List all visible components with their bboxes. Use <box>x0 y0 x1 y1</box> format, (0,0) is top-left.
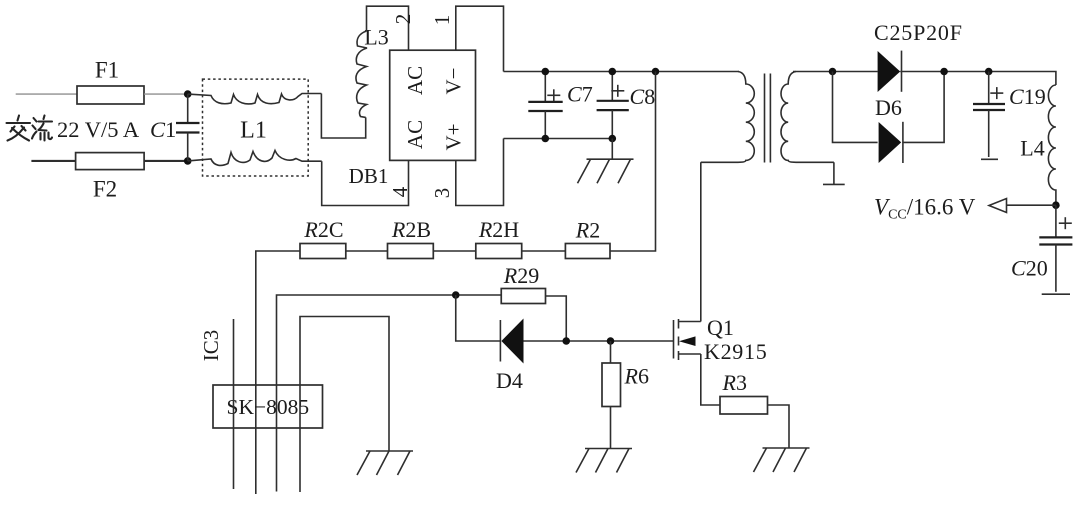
wire R29 row <box>277 295 502 492</box>
label C25P20F <box>874 20 963 45</box>
transistor Q1 <box>674 319 701 360</box>
wire IC3 pin 1 <box>233 319 235 489</box>
node gate row R29 <box>562 337 570 345</box>
inductor L3 <box>356 25 389 118</box>
svg-text:IC3: IC3 <box>199 330 223 362</box>
wire secondary top <box>793 71 878 73</box>
wire R3 to ground <box>768 405 790 448</box>
node top bus C7 <box>542 68 550 76</box>
wire AC top lead <box>16 93 77 95</box>
wire AC bottom lead <box>31 160 75 162</box>
resistor R2 <box>565 218 610 259</box>
node bottom AC <box>184 157 192 165</box>
label pin 3 <box>430 188 454 199</box>
svg-text:L1: L1 <box>240 118 267 144</box>
svg-text:C20: C20 <box>1011 256 1048 281</box>
inductor L1 common-mode choke <box>188 79 322 176</box>
svg-text:R6: R6 <box>624 364 649 389</box>
ground stub secondary bottom <box>823 162 845 184</box>
capacitor C1 <box>176 94 200 161</box>
wire F1 to node <box>144 93 188 95</box>
node top bus R2 branch <box>652 68 660 76</box>
node bottom bus C8 <box>609 135 617 143</box>
svg-text:R3: R3 <box>722 370 747 395</box>
wire top bus <box>504 71 740 73</box>
svg-text:1: 1 <box>430 15 454 26</box>
node Vcc <box>1052 201 1060 209</box>
label Q1 <box>707 315 734 340</box>
wire IC3 pin 4 to ground <box>300 317 389 493</box>
wire R29 out <box>546 296 567 341</box>
wire lower diode out <box>903 72 944 143</box>
wire <box>346 250 388 252</box>
label IC3 <box>199 330 223 362</box>
fuse F2 <box>76 153 145 202</box>
svg-text:AC: AC <box>403 120 427 149</box>
capacitor C7 <box>528 72 592 139</box>
label pin 1 <box>430 15 454 26</box>
wire <box>433 250 476 252</box>
wire <box>522 250 566 252</box>
resistor R2C <box>300 217 346 259</box>
svg-text:DB1: DB1 <box>349 164 389 188</box>
wire source to R3 <box>701 354 720 405</box>
label C1 <box>150 117 176 142</box>
wire pin 3 to bottom bus <box>456 139 504 206</box>
node bottom bus C7 <box>542 135 550 143</box>
node output bus D6 <box>940 68 948 76</box>
svg-text:R2: R2 <box>575 218 600 243</box>
IC SK-8085 <box>213 385 323 428</box>
svg-text:D4: D4 <box>496 368 523 393</box>
label D6 <box>875 95 902 120</box>
ground under R6 <box>576 449 632 473</box>
svg-text:Q1: Q1 <box>707 315 734 340</box>
wire node drop to D4 <box>456 295 500 341</box>
wire L3 top to pin 2 <box>367 6 409 50</box>
wire Vcc arrow <box>1007 204 1056 206</box>
wire to lower diode <box>833 72 878 143</box>
svg-text:C19: C19 <box>1009 84 1046 109</box>
diode D6 top <box>878 51 902 92</box>
node top AC <box>184 90 192 98</box>
wire R2 branch vertical <box>610 72 656 252</box>
svg-text:C8: C8 <box>630 84 656 109</box>
svg-text:R2C: R2C <box>303 217 343 242</box>
svg-text:L3: L3 <box>364 25 388 50</box>
wire pin 4 to L1 bottom <box>322 160 409 205</box>
resistor R2H <box>476 217 522 259</box>
wire R6 to ground <box>610 407 612 449</box>
wire L1 top out to L3 bottom <box>321 94 365 139</box>
svg-text:F2: F2 <box>93 176 117 201</box>
ground under R3 <box>754 448 810 472</box>
ground under C8 <box>578 159 634 183</box>
wire pin 1 to top bus <box>456 6 504 71</box>
wire drain to transformer <box>700 162 702 321</box>
wire output bus <box>900 72 1056 86</box>
svg-text:22 V/5 A: 22 V/5 A <box>57 117 140 142</box>
svg-text:C25P20F: C25P20F <box>874 20 963 45</box>
svg-text:L4: L4 <box>1020 136 1044 161</box>
bridge rectifier DB1 <box>349 50 476 188</box>
wire F2 to node <box>144 160 188 162</box>
label 交流 22 V/5 A <box>7 116 140 143</box>
diode D4 <box>500 319 523 364</box>
svg-text:V+: V+ <box>441 123 465 150</box>
arrow Vcc <box>989 199 1007 213</box>
svg-text:AC: AC <box>403 66 427 95</box>
svg-text:R2H: R2H <box>478 217 519 242</box>
svg-text:SK−8085: SK−8085 <box>226 395 309 419</box>
resistor R29 <box>501 263 545 304</box>
diode D6 lower <box>879 122 903 163</box>
node secondary top <box>829 68 837 76</box>
wire D4 to gate <box>524 340 674 342</box>
fuse F1 <box>77 57 144 104</box>
transformer T1 secondary <box>781 72 834 163</box>
svg-text:2: 2 <box>391 14 415 25</box>
svg-text:F1: F1 <box>95 57 119 82</box>
label pin 4 <box>388 186 412 197</box>
transformer core <box>765 74 771 163</box>
resistor R3 <box>720 370 768 414</box>
transformer T1 primary <box>701 72 755 163</box>
label Vcc <box>874 195 976 223</box>
svg-text:C1: C1 <box>150 117 176 142</box>
capacitor C19 <box>973 72 1046 160</box>
resistor R2B <box>388 217 434 259</box>
svg-text:3: 3 <box>430 188 454 199</box>
svg-text:V−: V− <box>441 67 465 94</box>
svg-text:R2B: R2B <box>391 217 431 242</box>
capacitor C20 <box>1011 205 1072 294</box>
node R29 input <box>452 291 460 299</box>
ground IC3 <box>357 451 413 475</box>
inductor L4 <box>1020 85 1056 205</box>
resistor R6 <box>602 341 649 407</box>
svg-text:K2915: K2915 <box>704 339 767 364</box>
capacitor C8 <box>597 72 656 139</box>
node top bus C8 <box>609 68 617 76</box>
node output bus C19 <box>985 68 993 76</box>
wire bottom bus <box>504 138 613 140</box>
svg-text:R29: R29 <box>503 263 539 288</box>
wire C8 to ground <box>611 139 613 160</box>
node gate row R6 <box>607 337 615 345</box>
label K2915 <box>704 339 767 364</box>
wire R row left <box>256 251 300 494</box>
svg-text:D6: D6 <box>875 95 902 120</box>
label D4 <box>496 368 523 393</box>
svg-text:C7: C7 <box>567 82 593 107</box>
label pin 2 <box>391 14 415 25</box>
